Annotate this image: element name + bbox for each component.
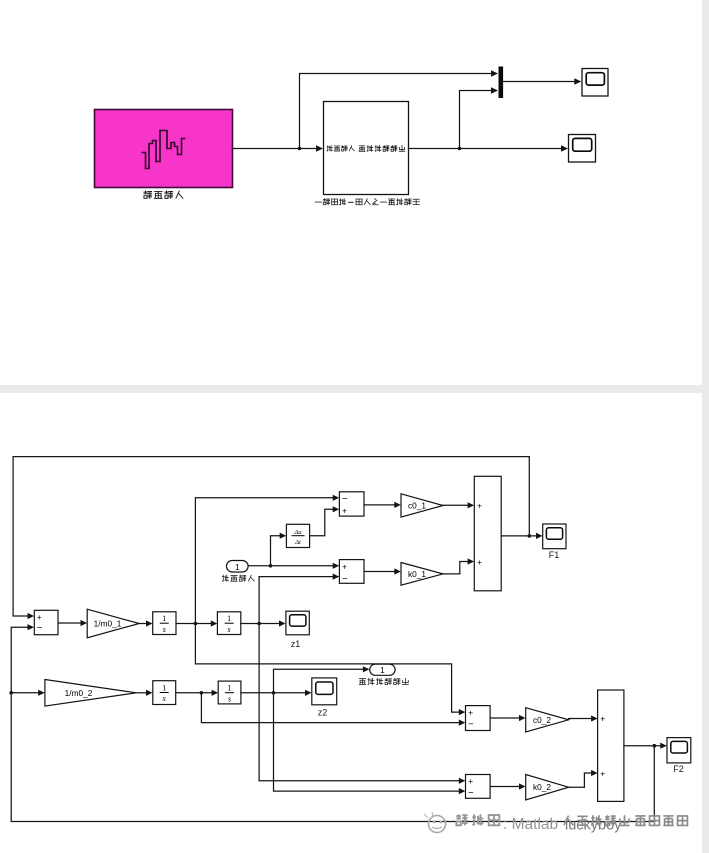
sum block c0_2	[466, 706, 491, 731]
svg-text:s: s	[163, 694, 166, 703]
integrator 2 row1	[217, 612, 240, 635]
outport oval 车身振动输出	[370, 664, 395, 675]
svg-text:+: +	[600, 769, 605, 779]
wire z1 up to sum k0_1 minus	[259, 574, 339, 624]
svg-text:c0_2: c0_2	[533, 715, 551, 725]
scope2	[569, 135, 596, 163]
subsystem name label 一系悬挂-四分之一车体模型	[315, 199, 419, 205]
wire sum to gain k0_1	[364, 568, 401, 574]
svg-text:k0_2: k0_2	[533, 782, 551, 792]
junction F1 feedback	[528, 534, 532, 538]
svg-text:+: +	[600, 714, 605, 724]
label 车身振动输出	[359, 678, 408, 684]
wire z0 up to derivative	[271, 533, 287, 566]
wire z2 down to sum k0_2 minus	[274, 693, 466, 794]
wire sum to gain c0_1	[364, 502, 401, 508]
big sum F2	[598, 690, 624, 801]
wire z2 to scope z2	[241, 690, 312, 696]
label 地面输入	[222, 575, 254, 581]
gain k0_2	[526, 775, 569, 800]
wire gain to integrator row2	[136, 690, 152, 696]
wire z1 down to sum k0_2 plus	[259, 624, 465, 784]
svg-text:Δu: Δu	[293, 529, 302, 536]
sum block c0_1	[339, 492, 364, 516]
sum block k0_1	[339, 560, 364, 585]
wire gain c0_2 to big sum F2	[569, 715, 598, 721]
sum block k0_2	[466, 775, 491, 799]
watermark text 微信号: Matlab...	[456, 814, 558, 833]
label 路面输入	[144, 191, 183, 198]
svg-text:Δt: Δt	[294, 539, 301, 546]
svg-text:1/m0_1: 1/m0_1	[94, 619, 122, 629]
wire big sum F2 to scope F2	[624, 743, 667, 749]
gain c0_1	[401, 494, 443, 517]
wire F2 feedback bottom loop to sum m1 minus	[11, 624, 654, 821]
wire z2 up to outport	[274, 666, 370, 693]
source block 路面输入 (Band-Limited White Noise)	[95, 110, 233, 188]
wire mux to scope1	[503, 78, 581, 84]
svg-text:+: +	[468, 708, 473, 718]
gain 1/m0_2	[45, 680, 136, 707]
wire sum to gain c0_2	[490, 715, 525, 721]
wire sum to gain k0_2	[490, 783, 525, 789]
svg-text:c0_1: c0_1	[408, 501, 426, 511]
wire subsystem to scope2	[409, 145, 569, 151]
inport oval 地面输入	[227, 561, 249, 573]
wire source to subsystem	[233, 145, 324, 151]
svg-text:−: −	[37, 623, 43, 634]
svg-text:+: +	[342, 561, 347, 571]
svg-text:+: +	[342, 506, 347, 516]
junction F2 feedback	[653, 744, 657, 748]
svg-text:−: −	[342, 574, 348, 585]
junction on output wire	[458, 147, 462, 151]
page 2 white sheet	[0, 393, 702, 853]
watermark overlapped text	[564, 815, 687, 833]
sum block m1	[34, 610, 58, 634]
gain k0_1	[401, 563, 443, 586]
subsystem outport label 车身振动输出	[359, 145, 405, 151]
svg-text:1: 1	[228, 684, 232, 693]
junction F2 to m2 gain	[9, 691, 13, 695]
junction z1	[257, 622, 261, 626]
svg-text:s: s	[228, 625, 231, 634]
junction v2	[200, 691, 204, 695]
gain c0_2	[526, 708, 569, 732]
junction v1	[194, 622, 198, 626]
svg-text:+: +	[37, 612, 42, 622]
wire big sum to scope F1	[501, 533, 542, 539]
svg-text:+: +	[468, 776, 473, 786]
wire gain k0_2 to big sum F2 (jog)	[569, 770, 598, 787]
svg-text:F2: F2	[673, 764, 684, 774]
wire gain to integrator v1	[139, 620, 152, 626]
scope1	[582, 69, 608, 97]
wire inport to sum k0_1 plus	[248, 563, 339, 569]
wire F2 to gain 1/m0_2	[11, 690, 45, 696]
wire gain k0_1 to big sum (jog)	[443, 558, 474, 574]
subsystem inport label 地面输入	[327, 146, 354, 151]
scope F1	[543, 524, 566, 560]
svg-text:s: s	[163, 625, 166, 634]
wire branch up to mux input 2	[460, 87, 499, 148]
scope F2	[667, 738, 691, 774]
svg-text:1: 1	[235, 562, 240, 572]
wire integrator1 to integrator2 row2	[176, 690, 218, 696]
scope z1	[286, 611, 309, 649]
wire z1 to scope z1	[241, 620, 286, 626]
wire v1 down to sum c0_2 plus	[195, 624, 465, 716]
subsystem block 一系悬挂-四分之一车体模型	[324, 102, 409, 195]
svg-text:s: s	[228, 694, 231, 703]
integrator 1 row2	[153, 681, 176, 705]
svg-text:1: 1	[380, 665, 385, 675]
wire branch up to mux input 1	[300, 70, 499, 148]
wire v1 to sum c0_1 minus	[195, 495, 339, 624]
svg-text:z1: z1	[291, 639, 301, 649]
derivative block du/dt	[286, 524, 309, 547]
svg-text:1: 1	[227, 614, 231, 623]
svg-text:+: +	[477, 557, 482, 567]
wire sum m1 to gain 1/m0_1	[58, 620, 87, 626]
svg-text:+: +	[477, 501, 482, 511]
junction on source wire	[298, 147, 302, 151]
svg-text:1/m0_2: 1/m0_2	[65, 688, 93, 698]
page 1 white sheet	[0, 0, 702, 385]
wire integrator1 to integrator2 row1	[176, 620, 217, 626]
wire v2 to sum c0_2 minus	[201, 693, 465, 726]
junction z0	[269, 564, 273, 568]
svg-text:F1: F1	[549, 550, 560, 560]
svg-text:k0_1: k0_1	[408, 569, 426, 579]
svg-text:−: −	[468, 719, 474, 730]
big sum F1	[474, 476, 501, 591]
integrator 1 row1	[153, 612, 176, 635]
wire derivative to sum c0_1 plus	[310, 506, 340, 536]
watermark wechat icon	[424, 812, 446, 833]
svg-text:1: 1	[162, 684, 166, 693]
svg-text:−: −	[468, 788, 474, 799]
junction z2	[272, 691, 276, 695]
gain 1/m0_1	[87, 609, 139, 638]
wire F1 feedback to sum m1 plus	[13, 457, 529, 619]
svg-text:1: 1	[162, 614, 166, 623]
scope z2	[312, 678, 337, 718]
integrator 2 row2	[218, 681, 241, 704]
svg-text:: Matlab: : Matlab	[503, 816, 558, 833]
mux bar	[499, 67, 504, 99]
svg-text:−: −	[342, 494, 348, 505]
svg-text:z2: z2	[318, 708, 328, 718]
wire gain c0_1 to big sum	[443, 502, 474, 508]
